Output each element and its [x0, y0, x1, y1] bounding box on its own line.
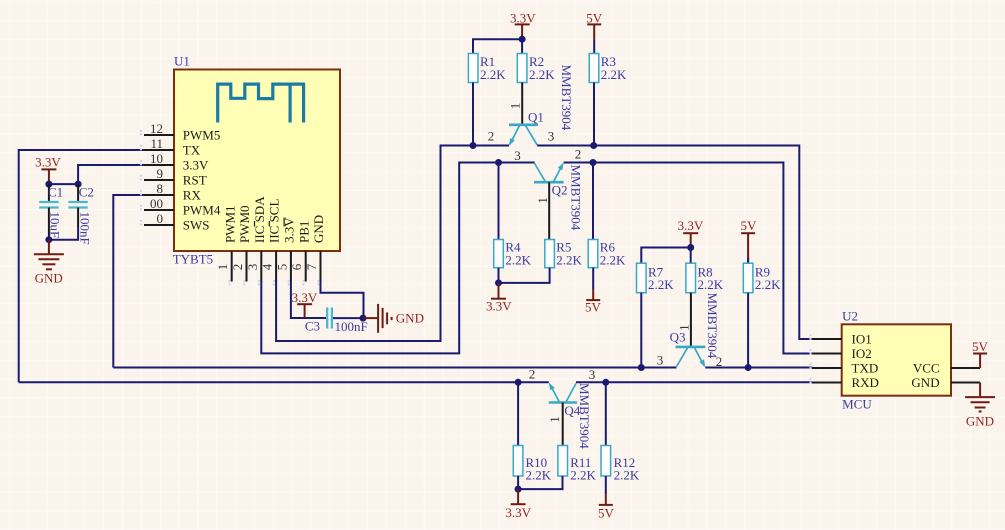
wire R6 bottom to 5V [592, 268, 594, 289]
wire 5V to R9 top [747, 258, 749, 263]
U2 pin GND [911, 375, 980, 390]
node junction C2 top [75, 181, 82, 188]
wire Q2 emitter rail to IO2 [564, 163, 812, 354]
resistor R3 [589, 54, 627, 83]
svg-text:SWS: SWS [183, 218, 210, 233]
U1 pin 12 PWM5 [144, 121, 220, 143]
svg-text:3: 3 [657, 352, 664, 367]
svg-text:3.3V: 3.3V [292, 290, 318, 305]
U1 pin 9 RST [144, 166, 207, 188]
wire R10 top drop [517, 382, 519, 445]
pin end markers [140, 130, 812, 384]
U2 pin IO1 [812, 331, 872, 346]
svg-text:1: 1 [508, 103, 523, 110]
svg-text:C1: C1 [48, 184, 63, 199]
power 5V at U2 VCC [972, 339, 989, 368]
svg-text:4: 4 [260, 263, 275, 270]
svg-text:IO1: IO1 [852, 331, 872, 346]
svg-text:2.2K: 2.2K [601, 67, 627, 82]
svg-text:3: 3 [245, 264, 260, 271]
svg-text:0: 0 [157, 211, 164, 226]
wire R12 top drop [605, 382, 607, 445]
resistor R12 [601, 446, 640, 483]
svg-text:3.3V: 3.3V [505, 505, 531, 520]
svg-text:2.2K: 2.2K [505, 252, 531, 267]
transistor Q3 [657, 293, 723, 370]
svg-text:5V: 5V [972, 339, 989, 354]
svg-text:1: 1 [547, 416, 562, 423]
wire C3 right plate to ground node [333, 317, 363, 319]
wire R9 bottom to Q3 emitter rail [747, 293, 749, 368]
wire 3.3V to R7 and R8 tops [641, 248, 690, 264]
resistor R2 [517, 54, 555, 83]
svg-text:GND: GND [311, 215, 326, 243]
svg-text:8: 8 [157, 181, 164, 196]
resistor R4 [494, 239, 532, 267]
svg-text:5V: 5V [740, 218, 757, 233]
svg-text:2.2K: 2.2K [529, 67, 555, 82]
svg-text:10: 10 [150, 151, 163, 166]
svg-text:2: 2 [529, 366, 536, 381]
resistor R8 [686, 263, 724, 293]
U1 pin 2 PWM0 [230, 205, 252, 281]
power 5V below R12 [598, 494, 615, 520]
svg-text:3.3V: 3.3V [510, 11, 536, 26]
power 5V above R3 [586, 11, 603, 41]
svg-text:10uF: 10uF [48, 212, 63, 239]
power 3.3V above R7 R8 [678, 218, 704, 248]
svg-text:11: 11 [150, 136, 163, 151]
power 5V below R6 [585, 289, 602, 315]
svg-text:GND: GND [966, 414, 994, 429]
svg-text:TXD: TXD [852, 360, 879, 375]
svg-text:12: 12 [150, 121, 163, 136]
node junction C1 top [45, 181, 52, 188]
chip U1 body TYBT5 [173, 54, 340, 267]
svg-text:5V: 5V [585, 300, 602, 315]
U1 pin 00 PWM4 [144, 196, 221, 218]
ground at U2 GND [965, 383, 995, 429]
wire R2 bottom to Q1 base [521, 83, 523, 125]
svg-text:VCC: VCC [913, 360, 940, 375]
chip U2 body MCU [842, 309, 951, 412]
svg-text:00: 00 [150, 196, 163, 211]
capacitor C2 [68, 184, 93, 245]
resistor R5 [545, 239, 583, 267]
svg-text:3.3V: 3.3V [183, 158, 209, 173]
ground right of C3 [363, 304, 424, 333]
node junction C1 bottom [45, 236, 52, 243]
wire U1 TX net left and down [19, 150, 144, 382]
svg-text:GND: GND [911, 375, 939, 390]
resistor R11 [558, 446, 597, 483]
svg-text:Q1: Q1 [528, 109, 544, 124]
svg-text:5V: 5V [586, 11, 603, 26]
svg-text:RX: RX [183, 188, 202, 203]
wire TX rail to Q4 emitter [19, 381, 549, 383]
wire R3 bottom to Q1 collector rail [593, 83, 595, 146]
wire R10 R11 bottoms join [518, 476, 562, 489]
transistor Q4 [529, 366, 596, 449]
power 5V above R9 [740, 218, 757, 263]
svg-text:GND: GND [396, 310, 424, 325]
svg-text:2: 2 [488, 129, 495, 144]
svg-text:GND: GND [35, 271, 63, 286]
resistor R6 [588, 239, 626, 267]
node junction R4 top [495, 159, 502, 166]
wire Q1 collector rail to IO1 [537, 146, 812, 340]
svg-text:9: 9 [157, 166, 164, 181]
svg-text:TYBT5: TYBT5 [173, 252, 213, 267]
svg-text:1: 1 [215, 264, 230, 271]
U2 pin VCC [913, 360, 980, 375]
svg-text:2.2K: 2.2K [480, 67, 506, 82]
svg-text:PWM5: PWM5 [183, 128, 221, 143]
svg-text:IIC SCL: IIC SCL [267, 199, 282, 243]
node junction R3 bottom [590, 142, 597, 149]
node junction R9 bottom [745, 364, 752, 371]
wire U1 pin5 3.3V to C3 [291, 281, 326, 318]
wire 5V to R3 top [593, 40, 595, 54]
wire U1 pin10 3.3V to C2 top [78, 165, 144, 184]
svg-text:6: 6 [289, 263, 304, 270]
wire IIC_SDA from U1 pin3 to Q2 collector rail [261, 163, 534, 354]
U1 pin 5 3.3V [274, 217, 296, 282]
ground below C1 [34, 240, 64, 286]
svg-text:PB1: PB1 [296, 221, 311, 243]
svg-text:2.2K: 2.2K [614, 468, 640, 483]
svg-text:1: 1 [535, 197, 550, 204]
U1 pin 11 TX [144, 136, 201, 158]
wire R4 R5 bottoms join [499, 268, 550, 283]
U1 pin 8 RX [144, 181, 201, 203]
wire Q4 collector rail to U2 RXD [576, 381, 812, 383]
svg-text:3.3V: 3.3V [35, 154, 61, 169]
svg-text:7: 7 [304, 263, 319, 270]
wire 3.3V to R1 and R2 tops [473, 39, 522, 53]
node junction R12 top [602, 379, 609, 386]
node junction R10 top [515, 379, 522, 386]
U1 pin 3 IIC_SDA [245, 196, 267, 282]
svg-text:1: 1 [677, 324, 692, 331]
node junction above R8 [687, 244, 694, 251]
svg-text:IO2: IO2 [852, 346, 872, 361]
svg-text:PWM4: PWM4 [183, 203, 221, 218]
resistor R9 [743, 263, 781, 293]
svg-text:2.2K: 2.2K [526, 468, 552, 483]
wire R12 bottom to 5V [605, 476, 607, 494]
svg-text:MMBT3904: MMBT3904 [577, 383, 592, 449]
svg-text:C3: C3 [305, 319, 320, 334]
svg-text:100nF: 100nF [77, 212, 92, 245]
svg-text:IIC SDA: IIC SDA [252, 196, 267, 243]
capacitor C3 [305, 308, 368, 335]
svg-text:5: 5 [274, 264, 289, 271]
U1 pin 7 GND [304, 215, 326, 282]
svg-text:5V: 5V [598, 506, 615, 521]
svg-text:3: 3 [548, 129, 555, 144]
wire U1 RX net left and down [113, 195, 144, 368]
transistor Q1 [488, 65, 574, 146]
node junction above R2 [519, 36, 526, 43]
svg-text:2: 2 [230, 264, 245, 271]
svg-text:2.2K: 2.2K [648, 277, 674, 292]
svg-text:MMBT3904: MMBT3904 [705, 293, 720, 359]
wire R1 bottom to Q1 emitter rail [472, 83, 474, 146]
U1 pin 10 3.3V [144, 151, 209, 173]
wire R8 bottom to Q3 base [690, 293, 692, 347]
resistor R7 [637, 263, 675, 293]
wire RX rail to Q3 collector [113, 367, 676, 369]
U2 pin RXD [812, 375, 879, 390]
svg-text:2.2K: 2.2K [755, 277, 781, 292]
svg-text:3: 3 [514, 148, 521, 163]
svg-text:PWM1: PWM1 [222, 205, 237, 243]
U1 pin 1 PWM1 [215, 205, 237, 281]
power 3.3V at C3 [292, 290, 318, 318]
svg-text:Q2: Q2 [552, 183, 568, 198]
node junction R1 bottom [470, 142, 477, 149]
U1 logo squiggle [218, 84, 305, 122]
node junction R6 top [590, 159, 597, 166]
power 3.3V above C1 [35, 154, 61, 184]
wire Q2 base to R5 [548, 182, 550, 239]
wire R6 top drop [592, 163, 594, 240]
resistor R1 [468, 54, 506, 83]
U2 pin IO2 [812, 346, 872, 361]
svg-text:MMBT3904: MMBT3904 [559, 65, 574, 131]
U1 pin 4 IIC_SCL [260, 199, 282, 282]
svg-text:2: 2 [575, 146, 582, 161]
svg-text:MCU: MCU [842, 397, 872, 412]
wire Q3 emitter rail to U2 TXD [705, 367, 812, 369]
svg-text:U2: U2 [842, 309, 858, 324]
capacitor C1 [39, 184, 63, 238]
svg-text:3: 3 [589, 367, 596, 382]
svg-text:2.2K: 2.2K [600, 252, 626, 267]
svg-text:U1: U1 [174, 54, 190, 69]
wire IIC_SCL from U1 pin4 to Q1 emitter rail [276, 146, 509, 342]
U1 pin 0 SWS [144, 211, 210, 233]
svg-text:2.2K: 2.2K [556, 252, 582, 267]
svg-text:TX: TX [183, 143, 201, 158]
svg-text:PWM0: PWM0 [237, 205, 252, 243]
transistor Q2 [514, 146, 583, 230]
power 3.3V below R10 [505, 489, 531, 520]
svg-text:RST: RST [183, 173, 207, 188]
node junction R4 bottom [495, 279, 502, 286]
power 3.3V above R1 R2 [510, 11, 536, 40]
resistor R10 [513, 446, 551, 483]
wire Q4 base to R11 [562, 403, 564, 446]
wire U1 pin7 GND down and over [321, 281, 364, 318]
node junction R10 bottom [515, 486, 522, 493]
svg-text:3.3V: 3.3V [486, 299, 512, 314]
node junction C3 ground [360, 315, 367, 322]
svg-text:2.2K: 2.2K [698, 277, 724, 292]
svg-text:3.3V: 3.3V [678, 218, 704, 233]
wire R7 bottom to Q3 collector rail [640, 293, 642, 368]
wire C2 bottom to C1 bottom [49, 227, 78, 240]
U1 pin 6 PB1 [289, 221, 311, 282]
svg-text:2.2K: 2.2K [570, 468, 596, 483]
node junction R7 bottom [638, 364, 645, 371]
wire C1 top to C2 top [49, 183, 78, 185]
power 3.3V below R4 [486, 283, 512, 314]
U2 pin TXD [812, 360, 878, 375]
svg-text:C2: C2 [79, 184, 94, 199]
wire R4 top drop [498, 163, 500, 240]
svg-text:RXD: RXD [852, 375, 879, 390]
svg-text:MMBT3904: MMBT3904 [569, 165, 584, 231]
